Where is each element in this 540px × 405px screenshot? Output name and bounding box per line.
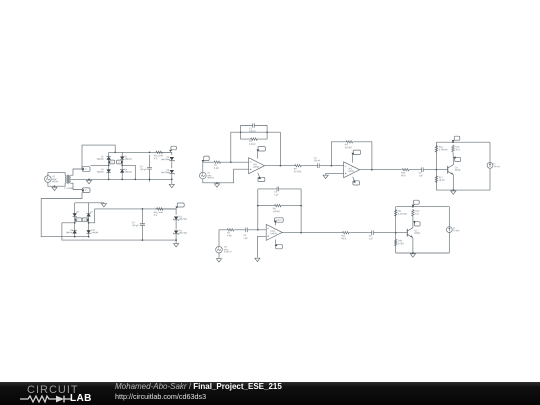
zener diode D12 xyxy=(174,230,178,233)
svg-text:6 kΩ: 6 kΩ xyxy=(214,168,219,170)
wire lower zener to ground xyxy=(175,234,177,244)
diode D4 xyxy=(120,169,124,172)
junction upper rail end xyxy=(171,179,173,181)
resistor R7 xyxy=(226,229,235,231)
svg-text:C4: C4 xyxy=(243,235,247,237)
wire C3 to Q1 base xyxy=(425,169,447,171)
net flag OA1 V- xyxy=(258,177,265,181)
junction Q2 collector branch xyxy=(412,206,414,208)
svg-text:R6_Load: R6_Load xyxy=(154,212,164,214)
ground lower bridge xyxy=(101,203,106,207)
wire feedback cap right xyxy=(256,126,267,133)
wire OA3 feedback cap right xyxy=(281,188,301,190)
wire V1 bottom to transformer primary xyxy=(48,182,65,186)
resistor R9 xyxy=(395,209,397,217)
net flag Q2 collector xyxy=(414,222,420,226)
junction OA3 feedback xyxy=(257,229,259,231)
diode D2 xyxy=(120,156,124,159)
wire V1 top to transformer primary xyxy=(48,173,65,176)
svg-text:NPN1: NPN1 xyxy=(455,170,462,172)
junction OA3 output feedback xyxy=(300,232,302,234)
svg-text:1 µF: 1 µF xyxy=(369,238,374,240)
wire R12 to Q2 collector xyxy=(412,217,414,226)
svg-text:8 Ω: 8 Ω xyxy=(415,214,419,216)
ground at center tap xyxy=(86,179,91,183)
transistor Q1 symbol xyxy=(447,166,449,174)
net flag -15V xyxy=(177,203,184,207)
diode D7 xyxy=(86,213,90,216)
zener diode D6 xyxy=(170,170,174,173)
resistor R1 xyxy=(213,161,222,163)
wire OA3 feedback right rail xyxy=(300,189,302,233)
net flag +15V xyxy=(171,146,177,150)
svg-text:LM741: LM741 xyxy=(270,233,277,235)
wire Q1 emitter xyxy=(452,175,454,190)
wire OA2 noninverting to ground xyxy=(326,173,344,174)
svg-text:86 Ω: 86 Ω xyxy=(401,175,406,177)
junction fb res right xyxy=(300,205,302,207)
junction OA2 output feedback xyxy=(371,169,373,171)
wire stage3 left rail xyxy=(435,142,437,190)
svg-text:8 Ω: 8 Ω xyxy=(154,158,158,160)
wire upper bridge right branch xyxy=(121,152,123,179)
capacitor C3 xyxy=(419,167,425,172)
svg-text:100 µF: 100 µF xyxy=(132,225,140,227)
net flag OA2 V+ xyxy=(353,150,360,154)
svg-text:1N4148: 1N4148 xyxy=(125,172,133,174)
net flag OA3 V- xyxy=(276,244,283,249)
svg-text:1N4148: 1N4148 xyxy=(125,159,133,161)
wire OA3 V- stub xyxy=(274,240,276,244)
svg-text:R15: R15 xyxy=(455,147,460,149)
ground stage5 xyxy=(410,253,415,257)
junction stage3 ground xyxy=(452,189,454,191)
capacitor C4 xyxy=(244,228,250,233)
svg-text:60 Hz: 60 Hz xyxy=(52,181,59,183)
svg-text:LM741: LM741 xyxy=(253,167,260,169)
svg-text:C8: C8 xyxy=(369,236,373,238)
net flag Vs+ (transformer) xyxy=(82,167,90,172)
svg-text:R10: R10 xyxy=(398,240,403,242)
svg-text:R2: R2 xyxy=(249,141,253,143)
resistor R2 xyxy=(249,138,259,140)
net flag stage5 Vcc xyxy=(414,200,420,204)
current source I1 symbol xyxy=(487,162,493,168)
resistor R11 xyxy=(342,232,351,234)
wire C4 to OA3 inverting input xyxy=(250,229,267,231)
net flag stage3 Vcc xyxy=(454,136,460,140)
svg-text:6.740 kΩ: 6.740 kΩ xyxy=(439,149,448,151)
svg-text:R14: R14 xyxy=(401,173,406,175)
ground at V1 xyxy=(52,186,57,190)
capacitor C1 xyxy=(251,123,256,128)
junction OA2 feedback xyxy=(331,165,333,167)
footer bar xyxy=(0,382,540,405)
svg-text:D7: D7 xyxy=(90,212,93,214)
svg-text:100 µF: 100 µF xyxy=(140,169,148,171)
wire stage5 left rail xyxy=(395,207,397,253)
resistor R6_Load xyxy=(156,208,165,210)
wire feedback res right xyxy=(259,132,267,139)
svg-text:1 µF: 1 µF xyxy=(243,238,248,240)
transformer T1 xyxy=(65,175,71,184)
svg-text:NPN1: NPN1 xyxy=(414,233,421,235)
wire upper zener to ground xyxy=(171,173,173,183)
junction upper cap top xyxy=(149,151,151,153)
wire Vs+ to upper bridge xyxy=(82,145,115,169)
resistor R12 xyxy=(412,209,414,217)
svg-text:R7: R7 xyxy=(227,233,231,235)
diode D8 xyxy=(73,213,77,216)
wire V3 to ground xyxy=(218,253,220,258)
wire Q2 emitter xyxy=(412,238,414,253)
ground stage1 xyxy=(214,183,219,187)
svg-text:1N4148: 1N4148 xyxy=(91,232,99,234)
wire OA1 V+ stub xyxy=(257,151,259,159)
wire R3 to C2 xyxy=(302,165,315,167)
wire OA2 feedback left xyxy=(331,142,345,166)
junction source ground xyxy=(54,185,56,187)
junction stage1 ground xyxy=(216,182,218,184)
wire Q1 collector xyxy=(452,162,454,165)
svg-text:V3: V3 xyxy=(224,247,227,249)
wire OA3 feedback cap left xyxy=(258,188,275,190)
net flag input (stage1) xyxy=(204,156,210,161)
junction lower rail end xyxy=(175,239,177,241)
junction C6 bottom xyxy=(142,239,144,241)
svg-text:1N4148: 1N4148 xyxy=(66,232,74,234)
zener diode D11 xyxy=(174,217,178,220)
svg-text:C6: C6 xyxy=(132,222,136,224)
wire secondary top tap xyxy=(71,169,82,175)
footer title line xyxy=(115,383,282,391)
resistor R5_Load xyxy=(155,151,164,153)
wire V2 to R1 xyxy=(203,162,213,172)
net flag OA3 V+ xyxy=(275,218,284,222)
junction feedback box left xyxy=(240,131,242,133)
logo schematic glyph : wire + resistor + diode xyxy=(20,394,72,404)
wire center tap rail xyxy=(71,178,172,180)
wire stage5 bottom rail xyxy=(396,252,450,254)
wire I2 top xyxy=(448,207,450,227)
junction lower AC left xyxy=(74,222,76,224)
resistor R15 xyxy=(452,145,454,153)
wire I1 bottom xyxy=(489,168,491,190)
wire OA3 feedback res right xyxy=(283,205,302,207)
resistor R8 xyxy=(273,204,283,206)
wire between lower zeners xyxy=(175,220,177,230)
ground at V3 xyxy=(216,258,221,262)
junction upper AC left xyxy=(108,164,110,166)
junction upper bridge bottom left xyxy=(108,179,110,181)
wire OA1 feedback run xyxy=(231,132,281,162)
wire upper bridge AC right xyxy=(122,165,135,179)
svg-text:R17: R17 xyxy=(439,177,444,179)
wire C2 to OA2 inverting input xyxy=(321,165,343,167)
svg-text:R5_Load: R5_Load xyxy=(154,155,164,157)
wire Vs- loop to lower bridge xyxy=(41,193,88,237)
svg-text:1N4734A: 1N4734A xyxy=(161,171,170,174)
wire R15 to Q1 collector xyxy=(452,152,454,161)
wire Q2 collector xyxy=(412,226,414,228)
wire OA2 output xyxy=(360,169,402,171)
CircuitLab logo wordmark xyxy=(27,384,79,396)
svg-text:100 nF: 100 nF xyxy=(314,160,321,162)
capacitor C2 xyxy=(315,163,321,168)
wire secondary bottom tap xyxy=(71,183,82,189)
junction C5 bottom xyxy=(149,179,151,181)
svg-text:400 Hz: 400 Hz xyxy=(207,177,214,179)
wire R7 to C4 xyxy=(235,229,244,231)
wire between upper zeners xyxy=(171,160,173,168)
svg-text:C7: C7 xyxy=(274,192,278,194)
svg-text:1N4148: 1N4148 xyxy=(96,159,104,161)
voltage source V3 (signal) xyxy=(216,246,223,253)
ground lower supply xyxy=(174,243,179,247)
net flag Vs- (transformer) xyxy=(82,188,90,193)
net flag V- (lower bridge) xyxy=(75,218,82,222)
wire to upper zeners xyxy=(164,152,172,155)
svg-text:R3: R3 xyxy=(294,169,298,171)
wire feedback to output xyxy=(279,132,281,166)
wire stage3 bottom rail xyxy=(436,189,490,191)
svg-text:C1: C1 xyxy=(249,128,253,130)
svg-text:100 kΩ: 100 kΩ xyxy=(273,211,280,213)
junction feed upper bridge xyxy=(114,151,116,153)
wire OA1 noninverting return xyxy=(203,169,249,183)
wire OA3 feedback res left xyxy=(258,205,273,207)
resistor R14 xyxy=(401,169,410,171)
wire R14 to C3 xyxy=(410,169,420,171)
wire to lower zeners xyxy=(164,209,176,215)
svg-text:T1 L5280: T1 L5280 xyxy=(64,188,74,190)
net flag V+ (lower bridge) xyxy=(82,218,88,222)
ground stage4 xyxy=(255,258,260,262)
svg-text:0.135 V: 0.135 V xyxy=(224,251,232,253)
resistor R17 xyxy=(435,175,437,183)
wire upper bridge left branch xyxy=(108,152,110,179)
current source I2 symbol xyxy=(446,227,452,233)
capacitor C5 xyxy=(147,155,152,182)
svg-text:R16: R16 xyxy=(439,147,444,149)
svg-text:I2: I2 xyxy=(453,228,456,230)
diode D10 xyxy=(86,230,90,233)
svg-text:1N4734A: 1N4734A xyxy=(179,218,188,221)
svg-text:V1: V1 xyxy=(52,176,56,178)
junction Q2 base divider xyxy=(395,232,397,234)
voltage source V1 (AC mains) xyxy=(45,176,52,183)
op-amp OA2 triangle xyxy=(344,162,360,178)
junction upper AC drop xyxy=(134,179,136,181)
logo LAB text xyxy=(70,393,92,404)
junction fb res left xyxy=(257,205,259,207)
wire lower bridge left branch xyxy=(74,203,76,237)
svg-text:75 mA: 75 mA xyxy=(494,165,501,168)
wire lower bridge AC left + bottom rail xyxy=(62,223,176,240)
svg-text:6.8 kΩ: 6.8 kΩ xyxy=(249,144,256,146)
svg-text:1 µF: 1 µF xyxy=(274,194,279,196)
transistor Q2 symbol xyxy=(406,229,408,237)
junction lower cap top xyxy=(142,208,144,210)
svg-text:C5: C5 xyxy=(140,166,144,168)
junction lower bridge bottom right xyxy=(88,236,90,238)
svg-text:36 Ω: 36 Ω xyxy=(455,149,460,151)
junction lower bridge bottom left xyxy=(74,236,76,238)
zener diode D5 xyxy=(170,157,174,160)
diode D1 xyxy=(107,156,111,159)
svg-text:8 Ω: 8 Ω xyxy=(154,215,158,217)
svg-text:10 kΩ: 10 kΩ xyxy=(439,180,445,182)
wire OA2 feedback right xyxy=(354,142,372,170)
net flag V- (bridge) xyxy=(116,160,122,164)
svg-text:1N4734A: 1N4734A xyxy=(179,232,188,235)
svg-text:LM741: LM741 xyxy=(348,171,355,173)
ground stage3 xyxy=(451,190,456,194)
wire stage3 top rail xyxy=(436,141,490,143)
capacitor C6 xyxy=(140,209,145,240)
svg-text:C2: C2 xyxy=(314,158,318,160)
wire feedback res left xyxy=(241,132,250,139)
net flag OA1 V+ xyxy=(258,147,265,151)
junction Q1 base divider xyxy=(436,169,438,171)
net flag OA2 V- xyxy=(353,181,360,185)
ground stage2 xyxy=(323,175,328,179)
resistor R16 xyxy=(435,145,437,153)
wire R1 to OA1 inverting input xyxy=(222,161,249,163)
svg-text:10 kΩ: 10 kΩ xyxy=(398,243,404,245)
wire stage5 top rail xyxy=(396,206,450,208)
wire V3 to R7 xyxy=(219,230,226,247)
wire I2 bottom xyxy=(448,233,450,254)
svg-text:R8: R8 xyxy=(273,208,277,210)
junction feedback box right xyxy=(266,131,268,133)
wire OA3 feedback left rail xyxy=(257,189,259,230)
svg-text:R9: R9 xyxy=(398,211,402,213)
svg-text:1N4148: 1N4148 xyxy=(96,171,104,173)
op-amp OA3 triangle xyxy=(266,224,282,240)
svg-text:31.6 kΩ: 31.6 kΩ xyxy=(294,171,302,173)
wire C8 to Q2 base xyxy=(376,232,408,234)
svg-text:I1: I1 xyxy=(494,163,497,165)
svg-text:R11: R11 xyxy=(341,236,346,238)
svg-text:D8: D8 xyxy=(76,212,79,214)
wire OA1 output xyxy=(265,165,294,167)
svg-text:R1: R1 xyxy=(214,165,218,167)
resistor R10 xyxy=(395,239,397,247)
resistor R3 xyxy=(294,165,303,167)
capacitor C8 xyxy=(370,230,376,235)
capacitor C7 xyxy=(275,187,281,192)
wire OA1 V- stub xyxy=(258,173,260,177)
wire OA2 V+ stub xyxy=(352,155,354,163)
wire OA3 noninverting to ground xyxy=(257,236,266,257)
junction upper bridge bottom right xyxy=(121,179,123,181)
wire OA3 V+ stub xyxy=(274,222,276,225)
svg-text:100 nF: 100 nF xyxy=(249,131,256,133)
wire feedback cap left xyxy=(241,126,251,133)
junction OA1 output feedback xyxy=(280,165,282,167)
voltage source V2 (signal) xyxy=(200,172,207,179)
svg-text:1 µF: 1 µF xyxy=(419,175,424,177)
svg-text:1N4734A: 1N4734A xyxy=(161,158,170,161)
svg-text:6.740 kΩ: 6.740 kΩ xyxy=(398,214,407,216)
svg-text:75 mA: 75 mA xyxy=(453,229,460,232)
diode D3 xyxy=(107,169,111,172)
svg-text:4 kΩ: 4 kΩ xyxy=(227,235,232,237)
svg-text:86 Ω: 86 Ω xyxy=(341,238,346,240)
wire OA2 V- stub xyxy=(353,177,355,181)
resistor R4 xyxy=(345,141,354,143)
wire upper bridge AC left xyxy=(91,164,109,166)
wire I1 top xyxy=(489,142,491,162)
net flag V+ (bridge) xyxy=(108,160,114,164)
wire lower bridge right branch xyxy=(88,203,90,237)
wire R11 to C8 xyxy=(350,232,369,234)
svg-text:+15 V: +15 V xyxy=(276,220,282,222)
junction lower AC right xyxy=(88,222,90,224)
wire lower bridge top rail xyxy=(75,202,104,204)
junction center tap ground xyxy=(88,179,90,181)
ground upper supply xyxy=(169,183,174,187)
junction Q1 collector branch xyxy=(452,141,454,143)
op-amp OA1 triangle xyxy=(249,158,265,174)
wire OA3 output xyxy=(282,232,341,234)
wire upper bridge top rail xyxy=(109,151,172,153)
junction upper AC right xyxy=(121,164,123,166)
svg-text:V2: V2 xyxy=(207,173,210,175)
svg-text:C3: C3 xyxy=(419,173,423,175)
wire lower bridge AC right + output rail xyxy=(89,209,177,223)
junction OA1 feedback xyxy=(230,161,232,163)
svg-text:R12: R12 xyxy=(415,211,420,213)
diode D9 xyxy=(73,230,77,233)
footer url line xyxy=(115,393,206,400)
net flag Q1 collector xyxy=(455,157,461,161)
svg-text:316 kΩ: 316 kΩ xyxy=(345,147,352,149)
junction stage5 ground xyxy=(412,252,414,254)
svg-text:R4: R4 xyxy=(345,144,349,146)
